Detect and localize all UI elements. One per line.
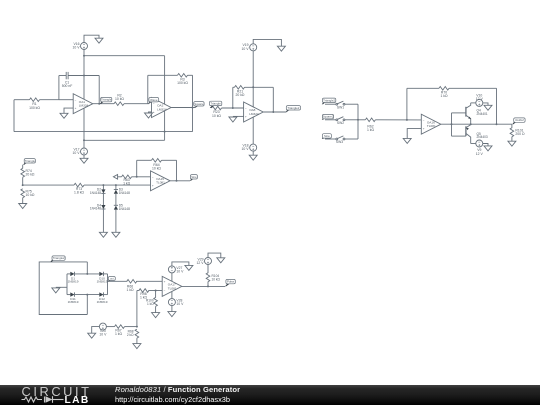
wire OA2 output bbox=[171, 107, 195, 109]
resistor R66 bbox=[126, 280, 136, 292]
wire V20 to ground bbox=[92, 327, 100, 334]
ground bbox=[484, 105, 492, 110]
voltage source V9 bbox=[476, 140, 484, 156]
node junction bbox=[406, 119, 408, 121]
wire OA17 to V28 bbox=[171, 292, 173, 299]
flag Triangle2 input bbox=[322, 98, 336, 104]
ground bbox=[403, 138, 411, 143]
footer bar bbox=[0, 385, 540, 405]
wire feedback left bbox=[13, 100, 15, 132]
svg-text:10 V: 10 V bbox=[73, 151, 81, 155]
node junction bbox=[83, 139, 85, 141]
svg-text:20 kΩ: 20 kΩ bbox=[236, 93, 245, 97]
svg-text:LAB: LAB bbox=[65, 395, 90, 405]
wire to R74 bbox=[22, 165, 24, 169]
node junction bbox=[22, 184, 24, 186]
wire arrow to R63 bbox=[118, 176, 122, 178]
svg-text:+: + bbox=[75, 106, 77, 110]
svg-text:−: − bbox=[164, 289, 166, 293]
svg-text:+: + bbox=[164, 280, 166, 284]
wire R98 corner bbox=[137, 291, 140, 327]
wire D5 to ground bbox=[115, 210, 117, 233]
wire V17 to ground bbox=[83, 155, 85, 158]
svg-text:TL081: TL081 bbox=[427, 124, 436, 128]
resistor R75 bbox=[21, 189, 35, 198]
voltage source V27 bbox=[168, 266, 184, 274]
svg-text:1N5819: 1N5819 bbox=[97, 280, 108, 284]
svg-text:Square2: Square2 bbox=[323, 115, 334, 119]
node junction bbox=[232, 107, 234, 109]
diode D10 bbox=[97, 272, 108, 284]
wire V10 to ground bbox=[483, 103, 488, 105]
node junction bbox=[102, 184, 104, 186]
ground bbox=[112, 232, 120, 237]
ground bbox=[52, 288, 60, 293]
diode D3 bbox=[114, 188, 130, 195]
resistor R70 bbox=[439, 87, 449, 99]
resistor R104 bbox=[206, 273, 220, 282]
wire feedback right OA16 bbox=[496, 88, 498, 124]
svg-text:1.8 kΩ: 1.8 kΩ bbox=[74, 191, 84, 195]
svg-text:10 kΩ: 10 kΩ bbox=[115, 97, 124, 101]
svg-text:Triangle: Triangle bbox=[101, 98, 112, 102]
svg-text:1N4148: 1N4148 bbox=[90, 207, 101, 211]
svg-text:10 V: 10 V bbox=[242, 147, 250, 151]
svg-text:TL081: TL081 bbox=[168, 286, 177, 290]
op-amp OA1 bbox=[73, 94, 93, 114]
diode D11 bbox=[68, 292, 79, 304]
svg-text:Voutbuf: Voutbuf bbox=[515, 118, 524, 122]
op-amp OA8 bbox=[244, 102, 264, 122]
wire to R104 bbox=[207, 282, 209, 287]
wire bus to R62 bbox=[358, 119, 365, 121]
svg-text:Sine: Sine bbox=[191, 175, 197, 179]
wire D4 to ground bbox=[102, 209, 104, 232]
svg-text:10 V: 10 V bbox=[242, 47, 250, 51]
wire OA17 output bbox=[182, 285, 225, 287]
wire R23 to OA8 bbox=[222, 107, 244, 109]
wire V27 to ground bbox=[172, 262, 189, 266]
wire feedback left OA16 bbox=[406, 88, 408, 120]
wire R21 feedback right bbox=[272, 87, 274, 112]
svg-text:20 kΩ: 20 kΩ bbox=[26, 173, 35, 177]
wire divider to OA15 bbox=[23, 184, 151, 186]
svg-text:1N4148: 1N4148 bbox=[119, 207, 130, 211]
svg-text:Triangle2: Triangle2 bbox=[287, 106, 299, 110]
svg-text:LM324: LM324 bbox=[249, 112, 259, 116]
wire R64 box left bbox=[136, 160, 138, 177]
ground bbox=[229, 117, 237, 122]
ground bbox=[88, 333, 96, 338]
svg-text:SW2: SW2 bbox=[337, 121, 344, 125]
wire R62 to OA16 bbox=[375, 119, 421, 121]
wire bridge ground tap bbox=[56, 286, 67, 288]
svg-text:−: − bbox=[75, 98, 77, 102]
transistor Q4 2N4401 bbox=[452, 103, 488, 124]
wire V18 to ground bbox=[252, 151, 254, 155]
svg-text:10 V: 10 V bbox=[176, 269, 184, 273]
wire bridge bottom center bbox=[86, 295, 88, 315]
resistor R101 bbox=[510, 128, 525, 137]
wire bridge box bbox=[39, 262, 87, 315]
resistor R100 bbox=[146, 297, 157, 306]
ground bbox=[508, 141, 516, 146]
resistor R23 bbox=[212, 106, 222, 118]
node junction bbox=[164, 131, 166, 133]
resistor R98 bbox=[139, 289, 149, 300]
wire supply rail OA2 bbox=[164, 56, 166, 141]
wire R74 to node bbox=[22, 177, 24, 185]
node junction bbox=[86, 273, 88, 275]
transistor Q5 2N4403 bbox=[452, 124, 488, 143]
ground bbox=[19, 204, 27, 209]
wire V20 to R67 bbox=[106, 326, 114, 328]
wire to SW3 bbox=[325, 138, 336, 140]
wire selector bus bbox=[357, 104, 359, 139]
voltage source V28 bbox=[168, 299, 184, 307]
wire R100 to ground bbox=[155, 306, 157, 312]
svg-text:+: + bbox=[245, 115, 247, 119]
svg-text:Sine: Sine bbox=[324, 134, 330, 138]
wire V16 to ground bbox=[84, 35, 99, 42]
switch SW3 bbox=[336, 136, 345, 144]
svg-text:1 kΩ: 1 kΩ bbox=[126, 288, 134, 292]
ground bbox=[152, 313, 160, 318]
diode D2 bbox=[90, 188, 106, 195]
svg-text:500 nF: 500 nF bbox=[62, 84, 73, 88]
wire D2 to D4 bbox=[102, 194, 104, 205]
node junction bbox=[357, 119, 359, 121]
svg-text:Triangle: Triangle bbox=[25, 159, 36, 163]
wire R1 input bbox=[14, 99, 59, 101]
wire OA8 supply bbox=[252, 51, 254, 144]
wire R98 to OA17 bbox=[148, 290, 162, 292]
wire V28 to ground bbox=[171, 306, 173, 312]
resistor R73 bbox=[74, 183, 84, 194]
svg-text:TL081: TL081 bbox=[156, 181, 165, 185]
resistor R67 bbox=[115, 325, 125, 336]
svg-text:2 kΩ: 2 kΩ bbox=[127, 333, 134, 337]
wire bottom rail bbox=[84, 139, 165, 141]
node junction bbox=[136, 326, 138, 328]
flag Wave bbox=[148, 98, 158, 104]
svg-text:10 kΩ: 10 kΩ bbox=[212, 278, 221, 282]
ground bbox=[95, 38, 103, 43]
node junction bbox=[192, 107, 194, 109]
svg-text:1 kΩ: 1 kΩ bbox=[367, 128, 375, 132]
svg-text:12 V: 12 V bbox=[476, 152, 484, 156]
resistor R62 bbox=[365, 118, 375, 132]
wire bridge top rail bbox=[67, 273, 108, 275]
node junction bbox=[83, 75, 85, 77]
resistor R74 bbox=[21, 168, 35, 177]
node junction bbox=[451, 123, 453, 125]
svg-text:−: − bbox=[152, 175, 154, 179]
node junction bbox=[272, 111, 274, 113]
svg-text:LM324: LM324 bbox=[157, 107, 167, 111]
svg-text:+: + bbox=[153, 110, 155, 114]
svg-text:+: + bbox=[423, 127, 425, 131]
svg-text:100 kΩ: 100 kΩ bbox=[29, 106, 40, 110]
svg-text:12 V: 12 V bbox=[476, 97, 484, 101]
node junction bbox=[115, 184, 117, 186]
svg-text:−: − bbox=[423, 118, 425, 122]
flag Triangle2 output bbox=[286, 106, 301, 112]
wire R75 to ground bbox=[22, 198, 24, 204]
wire V29 to ground bbox=[208, 253, 221, 258]
svg-text:1 kΩ: 1 kΩ bbox=[147, 302, 154, 306]
wire OA16 non-inverting to ground bbox=[407, 129, 421, 139]
wire OA15 output bbox=[170, 180, 190, 182]
flag Pulse bbox=[225, 279, 235, 286]
wire bridge bottom rail bbox=[67, 294, 108, 296]
svg-text:10 kΩ: 10 kΩ bbox=[212, 114, 221, 118]
resistor R63 bbox=[122, 175, 132, 186]
node junction bbox=[470, 123, 472, 125]
wire to SW2 bbox=[325, 119, 336, 121]
ground bbox=[217, 258, 225, 263]
wire V27 to OA17 bbox=[171, 273, 173, 281]
svg-text:1 kΩ: 1 kΩ bbox=[440, 94, 448, 98]
svg-text:1 kΩ: 1 kΩ bbox=[115, 332, 123, 336]
voltage source V29 bbox=[197, 257, 212, 265]
svg-text:1N5819: 1N5819 bbox=[97, 300, 108, 304]
wire OA8 non-inverting to ground bbox=[233, 115, 244, 117]
node junction bbox=[136, 176, 138, 178]
wire OA1 non-inverting to ground bbox=[64, 108, 73, 113]
svg-text:Square: Square bbox=[194, 102, 204, 106]
svg-text:Triangle2: Triangle2 bbox=[53, 256, 65, 260]
op-amp OA15 bbox=[151, 171, 171, 191]
op-amp OA16 bbox=[421, 114, 441, 134]
ground bbox=[99, 232, 107, 237]
resistor R2 bbox=[114, 93, 124, 105]
wire bridge left rail bbox=[66, 274, 68, 295]
diode D1 bbox=[68, 272, 79, 284]
wire Q5 collector to V9 bbox=[471, 143, 476, 145]
node junction bbox=[155, 290, 157, 292]
ground bbox=[484, 146, 492, 151]
wire out to R66 bbox=[108, 280, 128, 282]
svg-text:10 V: 10 V bbox=[99, 333, 107, 337]
svg-text:2N4403: 2N4403 bbox=[477, 135, 488, 139]
wire OA1 output bbox=[93, 103, 149, 105]
wire to D3 bbox=[115, 185, 117, 189]
voltage source V19 bbox=[242, 43, 257, 51]
svg-text:−: − bbox=[245, 106, 247, 110]
switch SW2 bbox=[336, 117, 345, 125]
wire OA8 output bbox=[263, 111, 286, 113]
wire R3 box left bbox=[147, 75, 149, 103]
diode D12 bbox=[97, 292, 108, 304]
wire R63 to OA15 bbox=[132, 176, 151, 178]
wire base bus bbox=[451, 113, 453, 136]
diode D4 bbox=[90, 203, 106, 210]
wire V19 to ground bbox=[253, 39, 281, 46]
ground bbox=[133, 344, 141, 349]
wire OA16 output to emitters bbox=[441, 123, 512, 125]
wire OA1 inverting input bbox=[59, 99, 73, 101]
node junction bbox=[176, 180, 178, 182]
ground bbox=[168, 312, 176, 317]
wire SW2 to bus bbox=[345, 119, 358, 121]
voltage source V16 bbox=[73, 42, 88, 50]
resistor R1 bbox=[29, 98, 40, 110]
svg-text:200 Ω: 200 Ω bbox=[515, 132, 525, 136]
node junction bbox=[98, 103, 100, 105]
wire D3 to D5 bbox=[115, 194, 117, 206]
wire R64 top bbox=[137, 159, 177, 161]
svg-text:SW1: SW1 bbox=[337, 105, 344, 109]
wire R21 feedback left bbox=[232, 87, 234, 108]
flag Square2 input bbox=[322, 114, 334, 119]
wire C1 box left bbox=[58, 76, 60, 100]
svg-text:12 V: 12 V bbox=[197, 261, 205, 265]
wire top rail bbox=[84, 55, 165, 57]
svg-text:Triangle: Triangle bbox=[210, 102, 221, 106]
svg-text:LM324: LM324 bbox=[79, 104, 89, 108]
wire to R100 bbox=[155, 291, 157, 298]
svg-text:+: + bbox=[152, 183, 154, 187]
wire R101 to ground bbox=[511, 137, 513, 142]
node junction bbox=[496, 123, 498, 125]
resistor R21 bbox=[235, 86, 245, 98]
wire feedback top OA16 bbox=[407, 87, 497, 89]
wire feedback bottom bbox=[14, 131, 193, 133]
node junction bbox=[83, 55, 85, 57]
resistor R64 bbox=[152, 159, 162, 171]
voltage source V20 bbox=[99, 323, 107, 336]
resistor R3 bbox=[177, 74, 188, 86]
wire C1 box right bbox=[98, 76, 100, 104]
svg-text:SW3: SW3 bbox=[336, 140, 343, 144]
svg-text:2N4401: 2N4401 bbox=[477, 112, 488, 116]
wire R3 top bbox=[148, 74, 193, 76]
node junction bbox=[252, 86, 254, 88]
wire to SW1 bbox=[325, 103, 336, 105]
flag Triangle2 bridge bbox=[50, 256, 65, 262]
wire R68 to ground bbox=[136, 338, 138, 344]
voltage source V18 bbox=[242, 144, 257, 152]
svg-text:1N4148: 1N4148 bbox=[90, 191, 101, 195]
op-amp OA17 bbox=[162, 276, 182, 296]
node junction bbox=[86, 294, 88, 296]
svg-text:100 kΩ: 100 kΩ bbox=[177, 81, 188, 85]
wire R67 to node bbox=[125, 326, 137, 328]
svg-text:out: out bbox=[110, 277, 114, 281]
ground bbox=[277, 46, 285, 51]
voltage source V10 bbox=[476, 94, 484, 107]
svg-text:1N5819: 1N5819 bbox=[68, 300, 79, 304]
wire OA2 non-inverting to ground bbox=[149, 112, 152, 113]
flag Sine input bbox=[322, 134, 332, 139]
wire to D2 bbox=[102, 185, 104, 189]
ground bbox=[60, 113, 68, 118]
wire SW3 to bus bbox=[345, 138, 358, 140]
flag Triangle input OA8 bbox=[209, 101, 221, 108]
capacitor C1 bbox=[62, 72, 73, 88]
svg-text:1 kΩ: 1 kΩ bbox=[123, 182, 131, 186]
wire R66 to OA17 bbox=[136, 280, 162, 282]
svg-text:10 kΩ: 10 kΩ bbox=[152, 167, 161, 171]
flag Square bbox=[194, 102, 204, 108]
CircuitLab logo bbox=[0, 383, 110, 405]
ground bbox=[145, 113, 153, 118]
switch SW1 bbox=[336, 101, 345, 109]
wire R3 box right bbox=[192, 75, 194, 131]
wire R104 to V29 bbox=[207, 265, 209, 274]
ground bbox=[185, 265, 193, 270]
ground bbox=[249, 155, 257, 160]
wire R21 feedback top bbox=[233, 86, 273, 88]
port arrow bbox=[113, 175, 117, 180]
wire R64 box right bbox=[176, 160, 178, 181]
wire V9 to ground bbox=[483, 144, 488, 146]
diode D5 bbox=[114, 204, 130, 211]
svg-text:1N5819: 1N5819 bbox=[68, 280, 79, 284]
node junction bbox=[207, 285, 209, 287]
svg-text:10 V: 10 V bbox=[176, 302, 184, 306]
svg-text:Wave: Wave bbox=[150, 98, 158, 102]
wire SW1 to bus bbox=[345, 103, 358, 105]
resistor R68 bbox=[127, 329, 139, 338]
ground bbox=[80, 158, 88, 163]
flag out bbox=[108, 277, 115, 282]
flag Triangle bbox=[100, 97, 112, 103]
flag Triangle divider bbox=[23, 159, 35, 165]
svg-text:1N4148: 1N4148 bbox=[119, 191, 130, 195]
svg-text:10 V: 10 V bbox=[73, 46, 81, 50]
svg-text:Pulse: Pulse bbox=[227, 280, 235, 284]
wire bridge top center bbox=[86, 262, 88, 274]
flag Sine output bbox=[190, 175, 198, 181]
wire Q4 collector to V10 bbox=[471, 102, 476, 104]
wire C1 top bbox=[59, 75, 99, 77]
wire supply rail OA1 bbox=[83, 50, 85, 149]
op-amp OA2 bbox=[152, 98, 172, 118]
flag Voutbuf bbox=[512, 118, 525, 124]
svg-text:Triangle2: Triangle2 bbox=[323, 98, 335, 102]
svg-text:10 kΩ: 10 kΩ bbox=[26, 193, 35, 197]
voltage source V17 bbox=[73, 148, 88, 156]
wire to R101 bbox=[511, 124, 513, 128]
wire bridge right rail bbox=[107, 274, 109, 295]
